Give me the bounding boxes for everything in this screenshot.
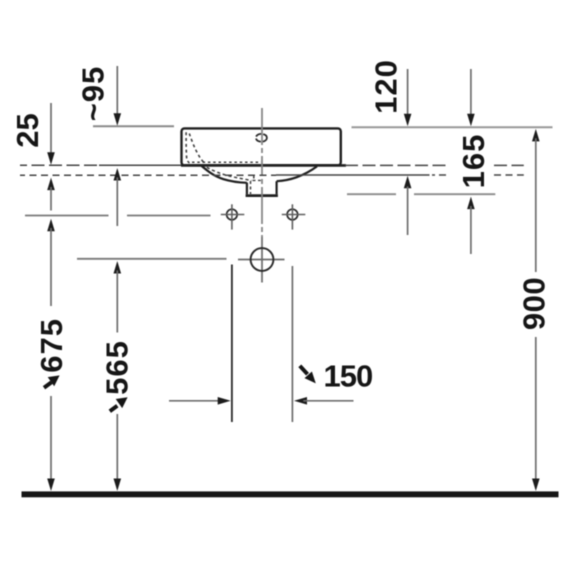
node washbasin outline (181, 128, 346, 195)
node drain hole circle (251, 248, 274, 271)
node floor line (22, 491, 559, 497)
node tap hole right circle (287, 209, 298, 220)
svg-text:900: 900 (517, 277, 552, 330)
svg-text:150: 150 (324, 358, 373, 393)
wire short arrow up to rim line at x117 (114, 168, 122, 181)
wire dashed rim line left (20, 164, 99, 166)
node tap hole left circle (227, 209, 238, 220)
wire dim 150 extension line right (291, 266, 293, 422)
wire trap bottom reference line right (347, 193, 396, 195)
wire solid rim extension left (99, 164, 181, 166)
wire dim 900 line with arrows (532, 129, 540, 142)
wire axis dashed line left (20, 174, 276, 176)
wire label arrow NE for 675 (44, 382, 52, 388)
wire hidden drain dashes in trap (250, 181, 252, 194)
wire hidden dotted line above bottom edge (192, 161, 261, 163)
wire dim ~95 line with down arrow (116, 66, 118, 117)
wire dim 565 top arrow up (114, 261, 122, 274)
svg-text:~95: ~95 (76, 66, 111, 122)
svg-text:120: 120 (369, 59, 404, 114)
wire dim 150 right arrow pointing left (294, 397, 307, 405)
wire drain height reference line (77, 258, 227, 260)
wire label arrow SE for 150 (300, 366, 308, 374)
wire drain circle vertical crosshair (261, 237, 263, 283)
wire hidden interior left wall outer dashed (186, 132, 189, 163)
svg-text:165: 165 (456, 134, 491, 189)
svg-text:25: 25 (10, 113, 45, 147)
wire dim 675 bottom arrow down (47, 479, 55, 492)
wire top reference line right (352, 126, 553, 128)
wire bowl left curve (201, 166, 247, 183)
node faucet hole ellipse (256, 134, 267, 142)
wire dim 120 line with down arrow (407, 69, 409, 118)
wire tap-hole height reference line (25, 215, 109, 217)
wire dim 165 line with down arrow (470, 69, 472, 118)
wire axis dot-dash right (432, 174, 448, 176)
wire dim 565 bottom arrow down (114, 479, 122, 492)
wire drain circle horizontal crosshair (238, 259, 285, 261)
wire hidden interior left wall inner dashed (189, 134, 204, 163)
wire dim 675 top arrow up (47, 219, 55, 232)
wire label arrow NE for 565 (110, 406, 118, 412)
svg-text:565: 565 (100, 340, 135, 395)
wire axis long solid segment (276, 174, 430, 176)
wire dashed rim line right (345, 164, 450, 166)
wire dim 25 upper line with down arrow (50, 103, 52, 156)
svg-text:675: 675 (34, 318, 69, 373)
wire bowl right curve (277, 166, 317, 181)
wire top reference line left (~95 ref) (93, 125, 174, 127)
wire dim 150 extension line left (231, 265, 233, 423)
wire dim 165 lower arrow up to trap line (467, 197, 475, 210)
wire vertical centerline dash-dot (261, 108, 263, 237)
wire dim 150 left arrow pointing right (169, 400, 222, 402)
wire hidden bowl interior dashed (207, 167, 252, 180)
wire dim 25 lower arrow up (47, 178, 55, 191)
wire dim 120 lower arrow up to axis line (404, 176, 412, 189)
wire trap outline (246, 183, 248, 195)
